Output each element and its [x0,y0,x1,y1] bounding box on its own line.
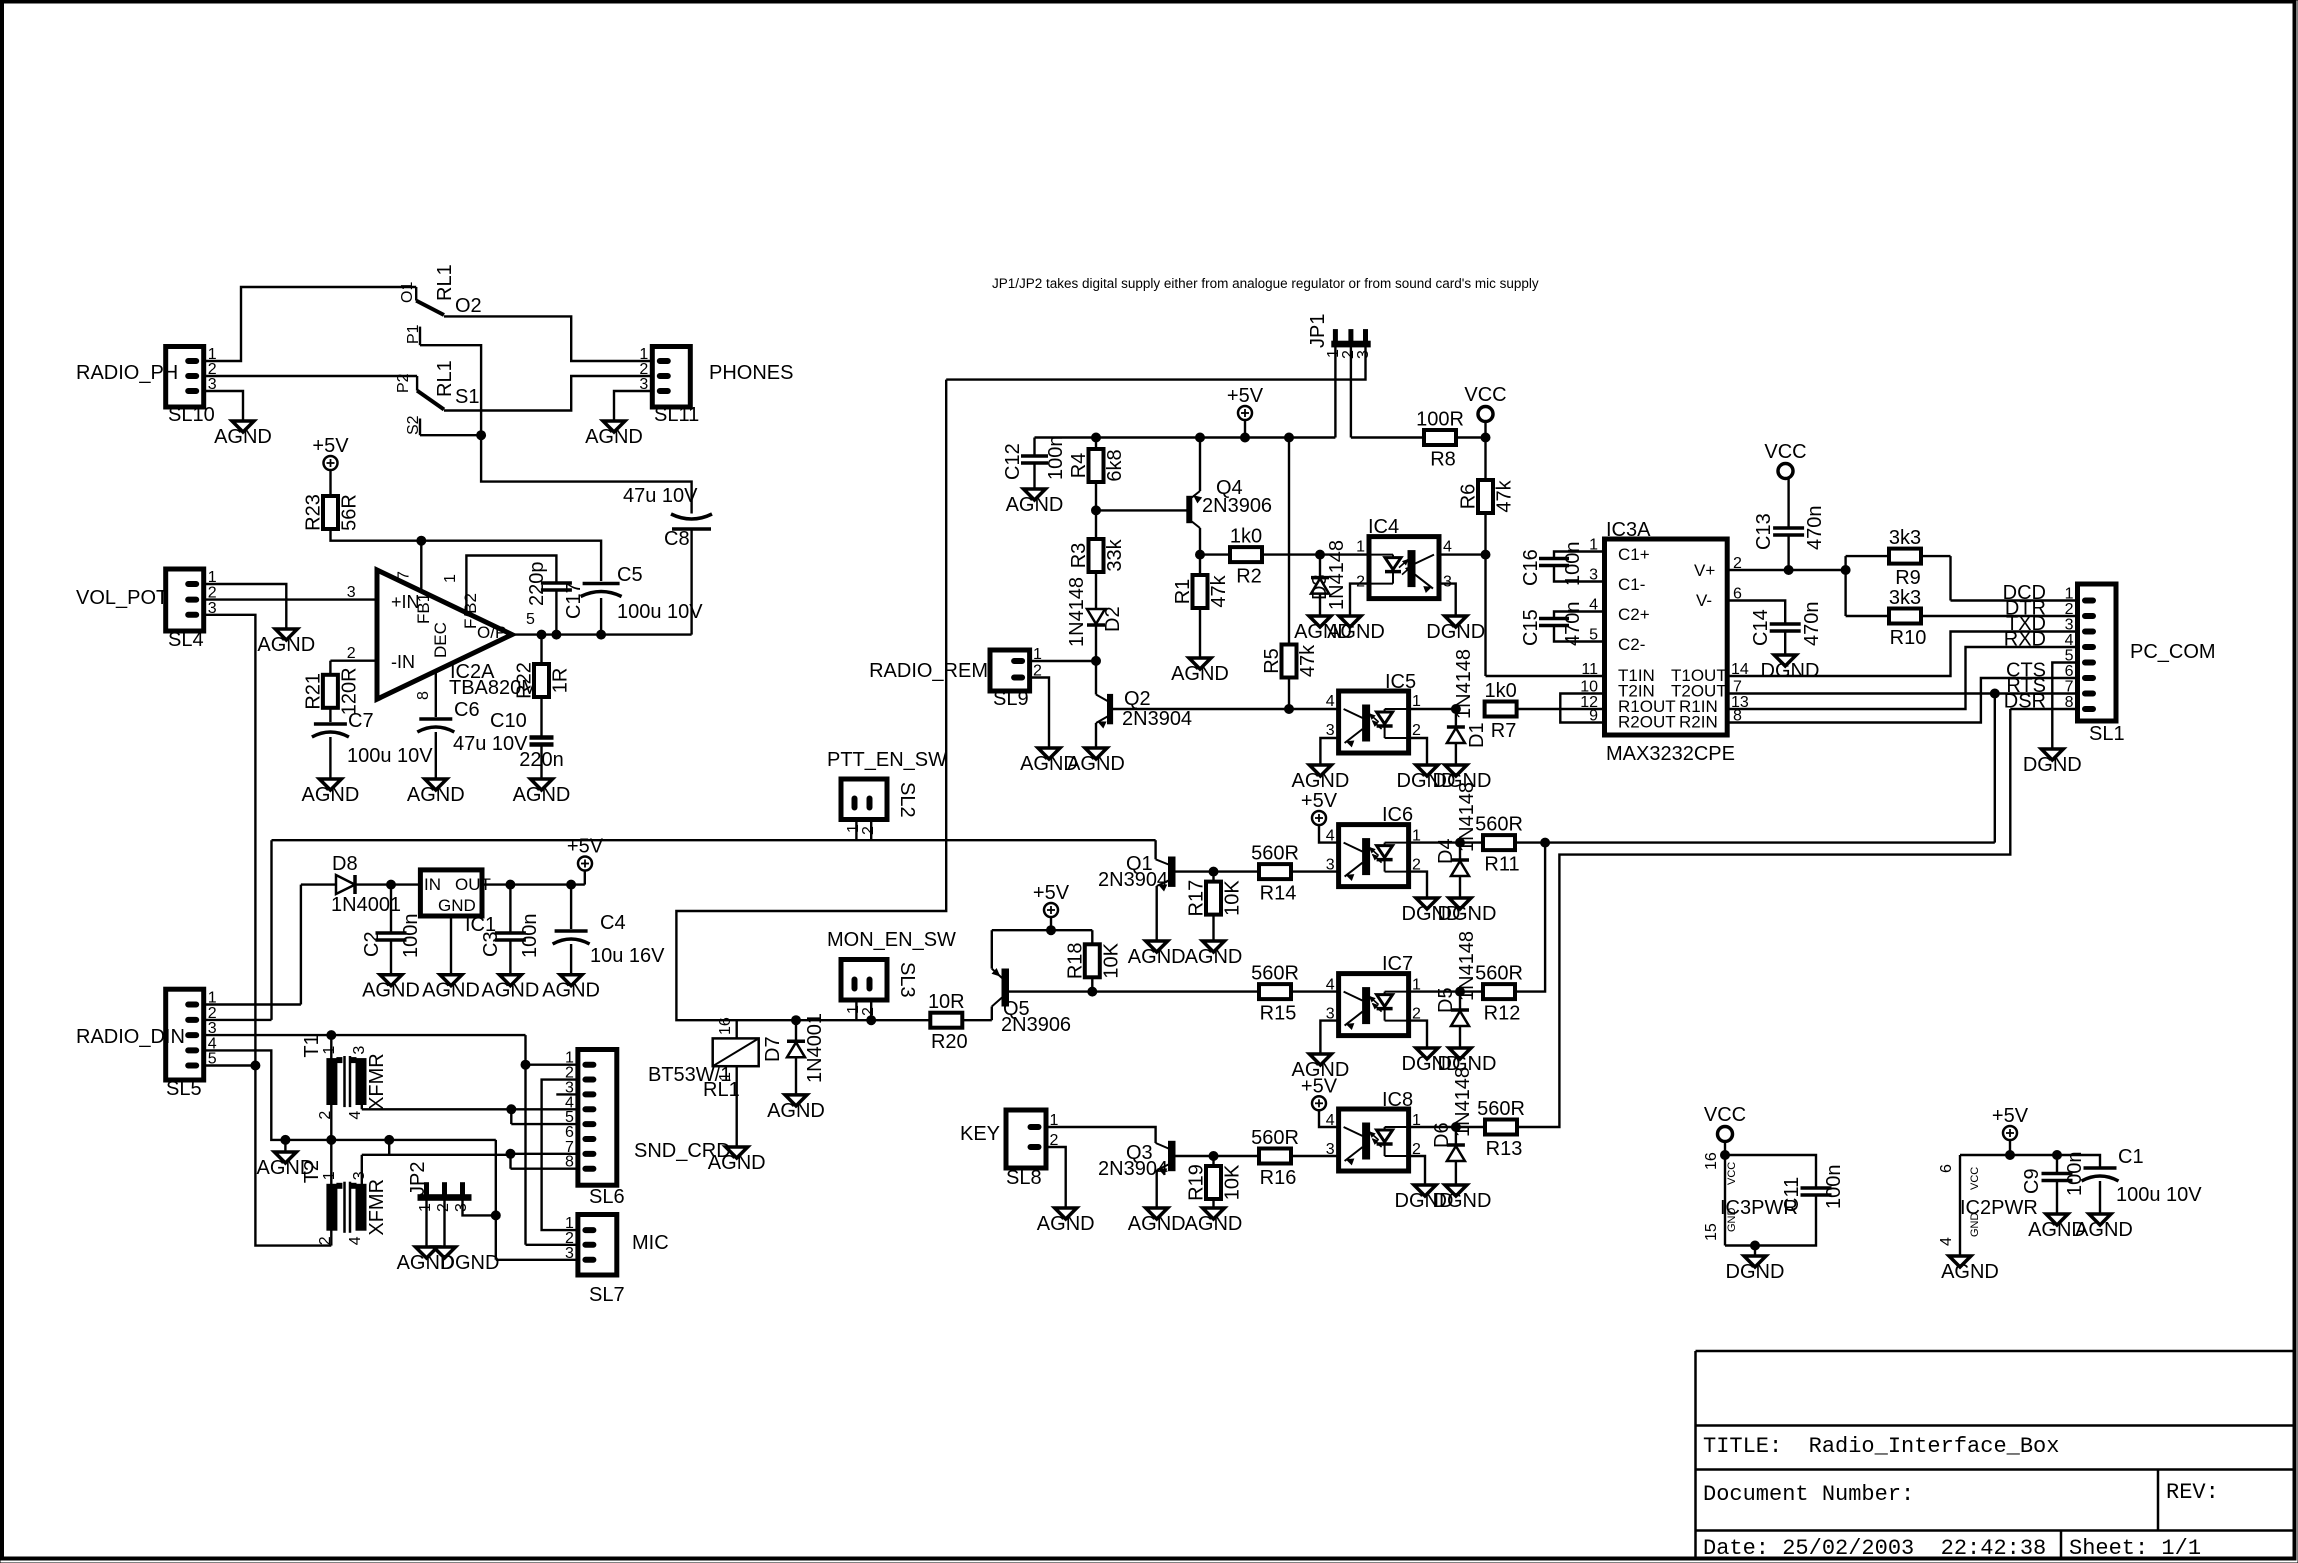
svg-text:R1: R1 [1172,579,1194,605]
svg-text:C17: C17 [563,582,585,619]
svg-text:SL2: SL2 [896,782,918,818]
svg-text:C1+: C1+ [1618,545,1650,564]
svg-text:R19: R19 [1186,1164,1208,1201]
svg-text:Document Number:: Document Number: [1703,1482,1914,1507]
svg-text:10: 10 [1580,679,1598,696]
svg-text:4: 4 [1443,539,1452,556]
svg-text:+5V: +5V [1033,882,1070,904]
svg-text:SL8: SL8 [1006,1167,1042,1189]
svg-text:1: 1 [442,574,459,583]
svg-text:D8: D8 [332,853,358,875]
svg-text:IC7: IC7 [1382,953,1413,975]
svg-text:16: 16 [1703,1152,1720,1170]
svg-text:AGND: AGND [482,980,540,1002]
svg-text:DSR: DSR [2004,691,2046,713]
svg-text:R13: R13 [1486,1138,1523,1160]
svg-text:R12: R12 [1484,1003,1521,1025]
svg-text:100n: 100n [2064,1152,2086,1197]
svg-text:100n: 100n [519,914,541,959]
svg-text:4: 4 [347,1236,364,1245]
svg-text:33k: 33k [1104,538,1126,571]
svg-text:+5V: +5V [1227,385,1264,407]
svg-text:AGND: AGND [407,784,465,806]
svg-text:RXD: RXD [2004,629,2046,651]
svg-text:AGND: AGND [1327,621,1385,643]
svg-text:DGND: DGND [1761,660,1820,682]
svg-text:VCC: VCC [1704,1104,1746,1126]
svg-text:470n: 470n [1562,602,1584,647]
svg-text:AGND: AGND [1128,1213,1186,1235]
svg-text:C16: C16 [1520,549,1542,586]
svg-text:R2: R2 [1236,566,1262,588]
svg-text:3: 3 [351,1046,368,1055]
svg-text:VCC: VCC [1464,384,1506,406]
svg-text:R5: R5 [1261,648,1283,674]
svg-text:47u 10V: 47u 10V [623,485,698,507]
svg-text:MON_EN_SW: MON_EN_SW [827,929,956,951]
svg-text:9: 9 [1589,708,1598,725]
svg-text:10R: 10R [928,991,965,1013]
svg-text:3: 3 [1443,574,1452,591]
svg-text:R6: R6 [1458,484,1480,510]
svg-text:RL1: RL1 [703,1079,740,1101]
svg-text:S2: S2 [405,415,422,435]
svg-text:D7: D7 [762,1036,784,1062]
svg-text:D4: D4 [1435,838,1457,864]
svg-text:6: 6 [1938,1164,1955,1173]
svg-text:R23: R23 [303,494,325,531]
svg-text:C2+: C2+ [1618,605,1650,624]
svg-text:11: 11 [1581,661,1598,678]
svg-text:1N4148: 1N4148 [1326,540,1348,610]
svg-text:DGND: DGND [441,1252,500,1274]
svg-text:2: 2 [860,1007,877,1016]
svg-text:VOL_POT: VOL_POT [76,587,168,609]
svg-text:100n: 100n [1562,542,1584,587]
svg-text:IC5: IC5 [1385,671,1416,693]
svg-text:2: 2 [1356,574,1365,591]
svg-text:R4: R4 [1068,453,1090,479]
svg-text:120R: 120R [338,667,360,715]
svg-text:AGND: AGND [1292,770,1350,792]
svg-text:C13: C13 [1753,513,1775,550]
svg-text:AGND: AGND [302,784,360,806]
svg-text:56R: 56R [339,494,361,531]
svg-text:10K: 10K [1100,942,1122,978]
svg-text:RL1: RL1 [434,264,456,301]
svg-text:C2-: C2- [1618,635,1645,654]
svg-text:2: 2 [317,1236,334,1245]
svg-text:C7: C7 [348,710,374,732]
svg-text:R3: R3 [1068,543,1090,569]
svg-text:R2IN: R2IN [1679,713,1718,732]
svg-text:DGND: DGND [1726,1261,1785,1283]
svg-text:6: 6 [2065,663,2074,680]
svg-text:P1: P1 [405,324,422,344]
svg-text:MAX3232CPE: MAX3232CPE [1606,743,1735,765]
svg-text:R16: R16 [1260,1167,1297,1189]
svg-text:PTT_EN_SW: PTT_EN_SW [827,749,947,771]
svg-text:V-: V- [1696,591,1712,610]
svg-text:3: 3 [351,1171,368,1180]
svg-text:T2: T2 [301,1160,323,1183]
svg-text:C12: C12 [1002,443,1024,480]
svg-text:3: 3 [1355,350,1372,359]
svg-text:REV:: REV: [2166,1480,2219,1505]
svg-text:C6: C6 [454,699,480,721]
svg-text:AGND: AGND [362,980,420,1002]
svg-text:D1: D1 [1466,722,1488,748]
svg-text:AGND: AGND [422,980,480,1002]
svg-text:AGND: AGND [585,426,643,448]
svg-text:2: 2 [347,645,356,662]
svg-text:VCC: VCC [1969,1167,1981,1190]
svg-text:47k: 47k [1208,574,1230,607]
svg-text:1R: 1R [550,668,572,694]
svg-text:IN: IN [424,875,441,894]
svg-text:SL3: SL3 [896,962,918,998]
svg-text:DEC: DEC [431,622,450,658]
svg-text:R7: R7 [1491,720,1517,742]
svg-text:4: 4 [1938,1237,1955,1246]
svg-text:IC3A: IC3A [1606,519,1651,541]
svg-text:1: 1 [1356,539,1365,556]
svg-text:IC6: IC6 [1382,804,1413,826]
svg-text:Q2: Q2 [1124,688,1151,710]
svg-text:4: 4 [1326,693,1335,710]
svg-text:AGND: AGND [2075,1219,2133,1241]
svg-text:AGND: AGND [1941,1261,1999,1283]
svg-text:R14: R14 [1260,883,1297,905]
svg-text:16: 16 [717,1017,734,1035]
svg-text:C2: C2 [361,931,383,957]
svg-text:C14: C14 [1750,609,1772,646]
svg-text:3: 3 [1326,1141,1335,1158]
svg-text:3: 3 [347,584,356,601]
svg-text:C1: C1 [2118,1146,2144,1168]
svg-text:3: 3 [1326,857,1335,874]
svg-text:100n: 100n [1045,436,1067,481]
svg-text:+5V: +5V [567,836,604,858]
svg-text:TITLE: Radio_Interface_Box: TITLE: Radio_Interface_Box [1703,1434,2059,1459]
svg-text:IC4: IC4 [1368,516,1399,538]
svg-text:AGND: AGND [1006,494,1064,516]
svg-text:8: 8 [2065,694,2074,711]
svg-text:3: 3 [2065,617,2074,634]
svg-text:C4: C4 [600,912,626,934]
svg-text:-IN: -IN [391,652,415,672]
svg-text:R15: R15 [1260,1003,1297,1025]
svg-text:100n: 100n [1823,1165,1845,1210]
svg-text:15: 15 [1703,1223,1720,1241]
svg-text:AGND: AGND [1128,946,1186,968]
svg-text:DGND: DGND [2023,754,2082,776]
svg-text:1N4148: 1N4148 [1066,577,1088,647]
svg-text:AGND: AGND [257,634,315,656]
svg-text:D2: D2 [1102,606,1124,632]
svg-text:100n: 100n [400,914,422,959]
svg-text:560R: 560R [1251,843,1299,865]
svg-text:R17: R17 [1186,880,1208,917]
svg-text:100u 10V: 100u 10V [2116,1184,2202,1206]
svg-text:100u 10V: 100u 10V [617,601,703,623]
svg-text:R20: R20 [931,1031,968,1053]
svg-text:4: 4 [347,1111,364,1120]
svg-text:3: 3 [1326,722,1335,739]
svg-text:560R: 560R [1475,814,1523,836]
svg-text:2: 2 [860,826,877,835]
svg-text:10u 16V: 10u 16V [590,945,665,967]
svg-text:2: 2 [317,1111,334,1120]
svg-text:KEY: KEY [960,1123,1000,1145]
svg-text:47k: 47k [1494,479,1516,512]
svg-text:560R: 560R [1251,963,1299,985]
svg-text:2N3904: 2N3904 [1122,708,1192,730]
svg-text:SL5: SL5 [166,1078,202,1100]
svg-text:R2OUT: R2OUT [1618,713,1676,732]
svg-text:3k3: 3k3 [1889,587,1921,609]
svg-text:2N3906: 2N3906 [1202,495,1272,517]
svg-text:470n: 470n [1804,506,1826,551]
svg-text:100R: 100R [1416,409,1464,431]
svg-text:V+: V+ [1694,561,1715,580]
svg-text:PC_COM: PC_COM [2130,641,2216,663]
svg-text:1N4001: 1N4001 [804,1013,826,1083]
svg-text:4: 4 [2065,632,2074,649]
svg-text:AGND: AGND [767,1100,825,1122]
svg-text:XFMR: XFMR [366,1053,388,1110]
svg-text:C8: C8 [664,528,690,550]
svg-text:+5V: +5V [312,435,349,457]
svg-text:5: 5 [2065,648,2074,665]
svg-text:XFMR: XFMR [366,1179,388,1236]
svg-text:C1-: C1- [1618,575,1645,594]
svg-text:8: 8 [415,691,432,700]
svg-text:10K: 10K [1222,880,1244,916]
svg-text:JP1/JP2 takes digital supply e: JP1/JP2 takes digital supply either from… [992,276,1539,291]
svg-text:2N3906: 2N3906 [1001,1014,1071,1036]
svg-text:47k: 47k [1297,644,1319,677]
svg-text:R10: R10 [1890,627,1927,649]
svg-text:R18: R18 [1064,942,1086,979]
svg-text:SL1: SL1 [2089,723,2125,745]
svg-text:D6: D6 [1431,1122,1453,1148]
svg-text:AGND: AGND [1037,1213,1095,1235]
svg-text:JP1: JP1 [1307,314,1329,348]
svg-text:AGND: AGND [1171,663,1229,685]
svg-text:1: 1 [321,1171,338,1180]
svg-text:D5: D5 [1435,987,1457,1013]
svg-text:1k0: 1k0 [1484,680,1516,702]
svg-text:C10: C10 [490,710,527,732]
svg-text:5: 5 [526,611,535,628]
svg-text:C3: C3 [480,931,502,957]
svg-text:1: 1 [321,1046,338,1055]
svg-text:1k0: 1k0 [1230,526,1262,548]
svg-text:100u 10V: 100u 10V [347,745,433,767]
svg-text:6k8: 6k8 [1104,449,1126,481]
svg-text:SL11: SL11 [654,404,699,426]
svg-text:10K: 10K [1222,1164,1244,1200]
svg-text:DGND: DGND [1397,770,1456,792]
svg-text:+5V: +5V [1992,1105,2029,1127]
svg-text:3k3: 3k3 [1889,527,1921,549]
svg-text:1: 1 [2065,586,2074,603]
svg-text:1: 1 [1412,693,1421,710]
svg-text:AGND: AGND [1067,753,1125,775]
svg-text:O/P: O/P [477,623,506,642]
svg-text:RL1: RL1 [434,360,456,397]
svg-text:560R: 560R [1477,1098,1525,1120]
svg-text:SL10: SL10 [168,404,215,426]
svg-text:AGND: AGND [542,980,600,1002]
svg-text:R11: R11 [1484,854,1519,876]
svg-text:+5V: +5V [1301,790,1338,812]
svg-text:AGND: AGND [214,426,272,448]
svg-text:1N4148: 1N4148 [1453,649,1475,719]
svg-text:+5V: +5V [1301,1075,1338,1097]
svg-text:C9: C9 [2021,1168,2043,1194]
svg-text:JP2: JP2 [407,1162,429,1196]
svg-text:470n: 470n [1801,602,1823,647]
svg-text:AGND: AGND [1185,1213,1243,1235]
svg-text:DGND: DGND [1426,621,1485,643]
svg-text:8: 8 [565,1154,574,1171]
svg-text:VCC: VCC [1726,1162,1738,1185]
svg-text:T1: T1 [301,1034,323,1057]
svg-text:C5: C5 [617,564,643,586]
svg-text:DGND: DGND [1402,903,1461,925]
svg-text:RADIO_REM: RADIO_REM [869,660,988,682]
svg-text:SL6: SL6 [589,1186,625,1208]
svg-text:3: 3 [565,1245,574,1262]
svg-text:VCC: VCC [1764,441,1806,463]
svg-text:FB1: FB1 [414,593,433,624]
svg-text:PHONES: PHONES [709,362,793,384]
svg-text:O1: O1 [399,282,416,303]
svg-text:1N4148: 1N4148 [1452,1067,1474,1137]
svg-text:2: 2 [2065,601,2074,618]
svg-text:GND: GND [438,896,476,915]
svg-text:R21: R21 [302,673,324,710]
svg-text:S1: S1 [455,386,479,408]
svg-text:IC8: IC8 [1382,1089,1413,1111]
svg-text:P2: P2 [395,373,412,393]
svg-text:R9: R9 [1895,567,1921,589]
svg-text:DGND: DGND [1395,1190,1454,1212]
svg-text:2: 2 [1412,722,1421,739]
svg-text:O2: O2 [455,295,482,317]
svg-text:Sheet: 1/1: Sheet: 1/1 [2069,1536,2201,1561]
svg-text:560R: 560R [1251,1127,1299,1149]
svg-text:IC3PWR: IC3PWR [1720,1197,1798,1219]
svg-text:SL9: SL9 [993,688,1029,710]
svg-text:47u 10V: 47u 10V [453,733,528,755]
svg-text:MIC: MIC [632,1232,669,1254]
svg-text:AGND: AGND [513,784,571,806]
svg-text:IC2PWR: IC2PWR [1960,1197,2038,1219]
svg-text:R22: R22 [514,662,536,699]
svg-text:AGND: AGND [708,1152,766,1174]
svg-text:SL7: SL7 [589,1284,625,1306]
svg-text:C15: C15 [1520,609,1542,646]
svg-text:RADIO_PH: RADIO_PH [76,362,178,384]
svg-text:SL4: SL4 [168,629,204,651]
svg-text:Date: 25/02/2003 22:42:38: Date: 25/02/2003 22:42:38 [1703,1536,2046,1561]
svg-text:R8: R8 [1430,449,1456,471]
svg-text:7: 7 [2065,679,2074,696]
svg-text:RADIO_DIN: RADIO_DIN [76,1026,185,1048]
svg-text:AGND: AGND [1185,946,1243,968]
svg-text:560R: 560R [1475,963,1523,985]
svg-text:220p: 220p [526,562,548,607]
